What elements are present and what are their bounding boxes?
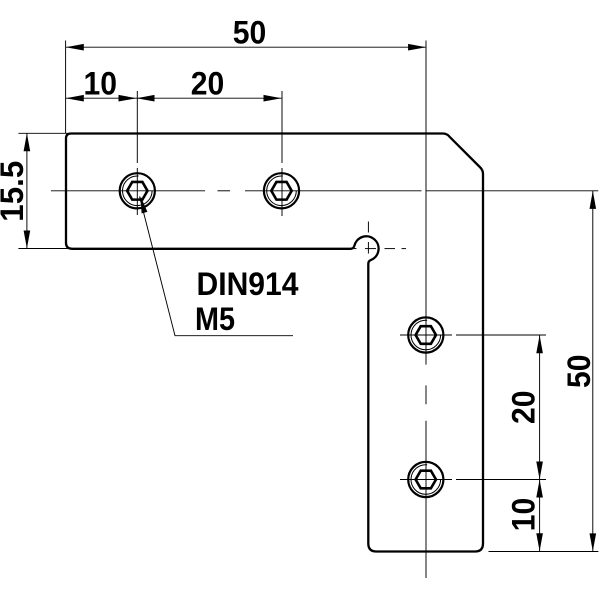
svg-text:50: 50 xyxy=(561,355,597,389)
hole H2 thread arc xyxy=(267,176,297,206)
hole H2 outer circle xyxy=(264,173,299,208)
dimension line 50 top xyxy=(66,46,426,48)
hole H3 hex socket xyxy=(416,326,436,344)
arrow 15.5 top xyxy=(24,133,31,151)
leader line DIN914 xyxy=(140,197,294,336)
dimension line 15.5 left xyxy=(26,133,28,248)
extension line 15.5 bottom xyxy=(18,248,70,250)
svg-text:15.5: 15.5 xyxy=(0,161,30,222)
centerline horizontal through holes H1 H2 (y=190.8) xyxy=(51,190,598,192)
dimension line 20/10 right xyxy=(539,335,541,551)
arrow 50-top left xyxy=(66,44,84,51)
arrow 50-top right xyxy=(408,44,426,51)
notch relief centerline cross xyxy=(347,222,407,284)
arrow 15.5 bottom xyxy=(24,231,31,249)
part outline xyxy=(66,134,483,552)
svg-text:M5: M5 xyxy=(195,301,235,337)
hole H2 hex socket xyxy=(271,182,291,200)
hole H4 hex socket xyxy=(416,471,436,489)
arrow 10 left xyxy=(66,95,84,102)
hole H1 outer circle xyxy=(120,173,155,208)
arrow 20 left xyxy=(137,95,155,102)
hole H1 hex socket xyxy=(127,182,147,200)
svg-text:10: 10 xyxy=(84,66,118,102)
arrow 10-right top xyxy=(536,480,543,498)
hole H3 thread arc xyxy=(411,320,441,350)
hole H1 thread arc xyxy=(123,176,153,206)
extension line 15.5 top xyxy=(18,132,69,134)
arrow 20-right bottom xyxy=(536,462,543,480)
hole H4 thread arc xyxy=(411,465,441,495)
centerline vertical hole H2 + extension line 20 xyxy=(281,91,283,216)
dimension line 50 right xyxy=(592,191,594,552)
extension line bottom edge (right dims) xyxy=(489,551,599,553)
centerline horizontal hole H4 (y=479.5) + extension to 10 dim xyxy=(400,479,546,481)
svg-text:20: 20 xyxy=(505,390,541,424)
centerline vertical hole H1 + extension line 10/20 xyxy=(136,91,138,215)
centerline vertical arm axis x=425.8 (also extension of top 50 dim) xyxy=(425,41,427,579)
svg-text:10: 10 xyxy=(505,498,541,532)
svg-text:50: 50 xyxy=(233,15,267,51)
centerline horizontal hole H3 (y=335) + extension to 20 dim xyxy=(400,334,546,336)
leader arrowhead xyxy=(141,196,148,213)
arrow 10 right xyxy=(119,95,137,102)
extension line left edge (top dims) xyxy=(65,41,67,134)
arrow 50-right top xyxy=(590,191,597,209)
dimension line 10/20 top xyxy=(66,97,282,99)
svg-text:DIN914: DIN914 xyxy=(197,266,299,302)
arrow 20 right xyxy=(264,95,282,102)
arrow 10-right bottom xyxy=(536,533,543,551)
arrow 50-right bottom xyxy=(590,533,597,551)
hole H3 outer circle xyxy=(408,317,443,352)
svg-text:20: 20 xyxy=(191,66,225,102)
arrow 20-right top xyxy=(536,335,543,353)
hole H4 outer circle xyxy=(408,462,443,497)
